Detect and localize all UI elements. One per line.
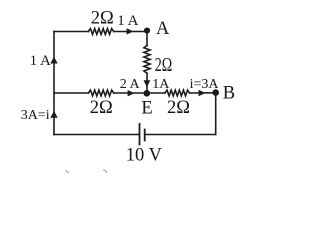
wire node E to resistor: [147, 92, 165, 94]
resistor R3 2ohm middle-right: [165, 90, 190, 96]
arrow current 2A middle right-pointing: [128, 90, 135, 96]
svg-text:i=3A: i=3A: [190, 77, 220, 92]
svg-text:2Ω: 2Ω: [167, 98, 190, 118]
wire middle to node E: [114, 92, 147, 94]
arrow current 3A left lower up-pointing: [50, 111, 57, 118]
wire vertical node A down: [146, 32, 148, 46]
node B junction dot: [212, 89, 219, 96]
svg-text:1 A: 1 A: [117, 13, 138, 29]
wire left vertical: [53, 32, 55, 135]
arrow current 1A down-pointing above E: [144, 80, 151, 87]
resistor R1 2ohm top: [88, 29, 114, 35]
svg-text:A: A: [156, 19, 170, 39]
wire resistor to node B: [190, 92, 216, 94]
wire middle left: [54, 92, 88, 94]
cut-off parenthesis right at bottom: [103, 170, 107, 173]
battery V1 short plate: [144, 130, 146, 141]
node A junction dot: [144, 28, 150, 34]
svg-text:2Ω: 2Ω: [155, 55, 173, 76]
svg-text:1A: 1A: [152, 77, 170, 92]
resistor R2 2ohm middle-left: [88, 90, 114, 96]
wire node B vertical: [215, 93, 217, 135]
arrow current 1A top right-pointing: [127, 28, 134, 34]
wire top to node A: [114, 31, 147, 33]
arrow current 1A left upper up-pointing: [50, 57, 57, 64]
wire bottom left: [54, 134, 140, 136]
wire vertical resistor to node E: [146, 73, 148, 93]
cut-off parenthesis left at bottom: [66, 170, 70, 174]
svg-text:2 A: 2 A: [120, 77, 141, 92]
arrow current i=3A right-pointing: [199, 90, 206, 96]
battery V1 long plate: [139, 124, 141, 145]
svg-text:B: B: [223, 84, 235, 104]
wire top-left horizontal: [54, 31, 88, 33]
svg-text:1 A: 1 A: [30, 53, 51, 69]
resistor R4 2ohm vertical: [144, 45, 150, 73]
svg-text:E: E: [141, 99, 152, 119]
svg-text:2Ω: 2Ω: [91, 9, 114, 29]
node E junction dot: [144, 90, 151, 97]
svg-text:2Ω: 2Ω: [90, 98, 113, 118]
wire bottom right: [145, 134, 216, 136]
svg-text:3A=i: 3A=i: [21, 108, 50, 123]
svg-text:10 V: 10 V: [126, 146, 163, 166]
